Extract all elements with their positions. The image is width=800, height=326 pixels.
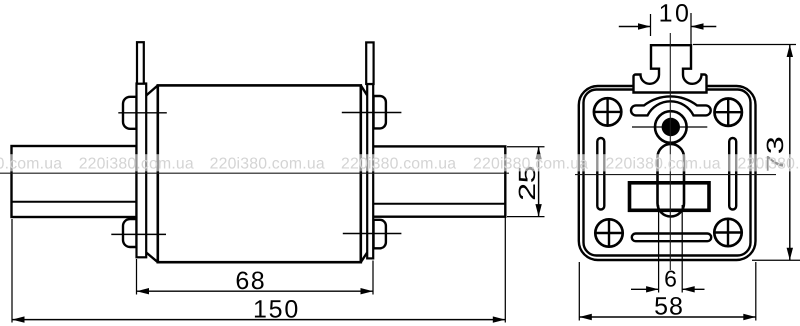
svg-text:220i380.com.ua: 220i380.com.ua xyxy=(606,155,721,172)
vertical centerline right view xyxy=(669,33,671,270)
left grip tab xyxy=(137,42,144,83)
screw top-right xyxy=(714,98,743,127)
svg-text:220i380.com.ua: 220i380.com.ua xyxy=(473,155,588,172)
svg-text:150: 150 xyxy=(253,295,300,323)
dimension 58 line xyxy=(579,316,756,318)
centerline axis left view xyxy=(0,172,509,174)
left contact tick bottom xyxy=(111,233,166,235)
watermark texts xyxy=(0,155,800,172)
svg-text:68: 68 xyxy=(235,267,266,295)
dimension 25 extension lines xyxy=(507,146,545,148)
svg-text:220i380.com.ua: 220i380.com.ua xyxy=(79,155,194,172)
dimension 6 line and arrows xyxy=(631,288,659,290)
left vertical slot xyxy=(597,138,604,210)
svg-text:220i380.com.ua: 220i380.com.ua xyxy=(738,155,800,172)
dimension 68 line xyxy=(137,290,374,292)
svg-text:10: 10 xyxy=(659,0,692,28)
right contact tick top xyxy=(342,112,402,114)
dimension 150 extension lines xyxy=(11,219,13,323)
screw bottom-left xyxy=(594,218,623,247)
svg-text:3: 3 xyxy=(762,136,788,154)
svg-text:220i380.com.ua: 220i380.com.ua xyxy=(210,155,325,172)
dimension 6 extension lines xyxy=(658,205,660,293)
dimension 10 line and arrows xyxy=(619,26,651,28)
dimension 150 line xyxy=(12,319,505,321)
indicator cross tick xyxy=(632,126,707,128)
dimension 10 extension lines xyxy=(650,14,652,36)
screw bottom-right xyxy=(713,218,742,247)
dimension 25 line xyxy=(538,147,540,217)
grip lug bar with blade tab (front) xyxy=(634,45,707,92)
svg-text:58: 58 xyxy=(654,292,684,320)
screw top-left xyxy=(593,97,622,126)
right grip tab xyxy=(366,42,373,84)
right contact tick bottom xyxy=(343,233,402,235)
left end cap chamfer bottom xyxy=(146,253,158,263)
right end cap chamfer top xyxy=(361,85,367,95)
dimension 73 line xyxy=(789,45,791,261)
arched slot band over indicator xyxy=(631,96,711,115)
dimension 73 extension lines xyxy=(693,44,796,46)
dimension 25 text xyxy=(514,165,540,183)
label box xyxy=(630,183,710,211)
svg-text:220i380.com.ua: 220i380.com.ua xyxy=(341,155,456,172)
right blade contact xyxy=(373,146,506,216)
left contact bump bottom xyxy=(123,219,137,247)
svg-text:220i380.com.ua: 220i380.com.ua xyxy=(0,155,62,172)
left end cap chamfer top xyxy=(146,85,158,95)
indicator dot xyxy=(662,118,680,136)
left end plate xyxy=(137,84,147,258)
right contact bump bottom xyxy=(374,220,386,249)
left contact bump top xyxy=(123,97,137,129)
right vertical slot xyxy=(729,138,736,210)
right contact bump top xyxy=(374,96,386,128)
right end cap chamfer bottom xyxy=(361,253,367,263)
central oval slot xyxy=(658,144,685,217)
dimension 58 extension lines xyxy=(578,262,580,321)
horizontal centerline right view xyxy=(575,174,776,176)
dimension 73 text xyxy=(762,136,788,154)
body outline outer xyxy=(579,86,756,260)
left contact tick top xyxy=(118,112,167,114)
watermark whitening band xyxy=(0,154,800,171)
left blade contact xyxy=(12,146,137,217)
fuse body xyxy=(158,85,361,262)
svg-text:2: 2 xyxy=(514,183,540,201)
bottom horizontal slot xyxy=(632,234,711,242)
svg-text:6: 6 xyxy=(664,265,677,291)
right end plate xyxy=(367,84,373,258)
dimension 68 extension lines xyxy=(136,259,138,295)
indicator ring xyxy=(655,111,687,143)
body outline inner xyxy=(584,90,751,256)
